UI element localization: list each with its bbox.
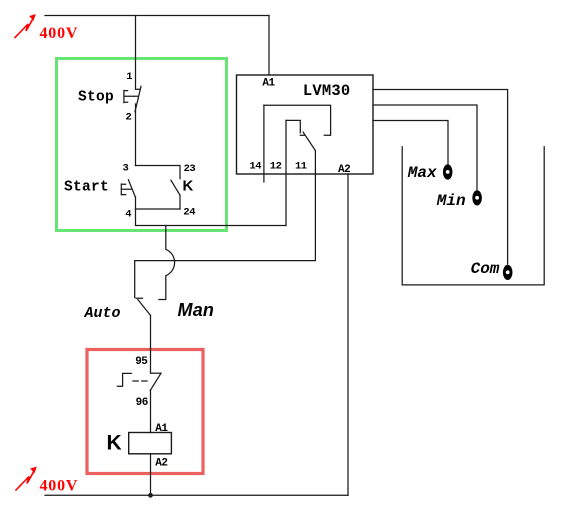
svg-text:96: 96 [136,397,148,409]
thermal overload NC contact 95-96 [117,373,161,390]
level relay LVM30 box [237,75,374,174]
lightning arrow bottom [16,467,36,490]
svg-text:Com: Com [471,260,500,278]
LVM30 internal contact: NO 14 branch [264,105,331,135]
wire: pin 14 stub [263,105,265,182]
top power rail 400V [45,15,269,17]
svg-text:Max: Max [407,164,437,182]
wire: Stop to node 3 [135,104,137,166]
svg-text:LVM30: LVM30 [303,82,351,100]
wire: node 4 down and right to LVM30 pin 12 [136,209,286,226]
wire: coil A2 to bottom rail [150,454,152,496]
svg-text:A2: A2 [155,458,167,470]
svg-text:K: K [107,431,122,454]
LVM30 internal blade 11 [303,132,315,151]
electrode Com [503,265,513,280]
pushbutton Stop (NC contact) [124,86,141,112]
wire: LVM30 to Min electrode [373,105,477,190]
svg-text:A1: A1 [262,77,275,89]
selector switch blade [138,300,151,316]
svg-text:400V: 400V [40,25,79,42]
svg-text:400V: 400V [40,477,79,494]
wire: LVM30 to Com electrode [373,90,508,265]
bottom power rail 400V [45,494,348,496]
wire: node 3 branch to contact K [136,166,181,179]
electrode Max [443,164,453,179]
svg-text:Start: Start [64,180,109,196]
svg-text:Stop: Stop [78,89,114,105]
svg-text:K: K [183,178,194,195]
contact K (NO, seal-in) [171,180,180,195]
pushbutton Start (NO contact) [121,180,135,197]
wire: 96 to coil A1 [150,391,152,433]
svg-text:3: 3 [123,163,129,175]
svg-text:14: 14 [249,161,261,173]
wire: LVM30 to Max electrode [373,121,448,165]
svg-text:23: 23 [184,163,196,175]
svg-text:1: 1 [126,71,132,83]
coil K rectangle [129,433,172,454]
wire: start lower to node 4 rung [136,195,181,209]
wire: LVM30 A2 to bottom rail [347,174,349,495]
svg-text:A1: A1 [155,423,168,435]
junction dot coil-rail [148,493,153,498]
red enclosure box [87,350,203,474]
tank vessel [402,147,544,285]
wire: rung joining 4 and 24 [136,208,181,210]
LVM30 internal contact: common 11 branch [286,120,305,135]
svg-text:Min: Min [436,192,466,210]
wire: rail down to Stop contact [135,16,137,90]
svg-text:11: 11 [295,161,307,173]
svg-text:95: 95 [135,356,148,368]
wire: LVM30 pin 11 to Auto terminal [135,151,316,299]
svg-text:Man: Man [178,300,215,320]
wire: pin 12 [285,120,287,225]
wire: junction to Man terminal (hop over wire) [159,226,175,300]
svg-text:24: 24 [183,206,195,218]
wire: selector common down into red box [150,315,152,373]
svg-text:12: 12 [270,161,282,173]
svg-text:4: 4 [125,208,131,220]
electrode Min [472,190,482,205]
lightning arrow top [15,15,35,38]
svg-text:Auto: Auto [84,305,121,322]
green enclosure box [57,59,227,231]
svg-text:2: 2 [126,111,132,123]
wire: rail to LVM30 pin A1 [268,16,270,76]
